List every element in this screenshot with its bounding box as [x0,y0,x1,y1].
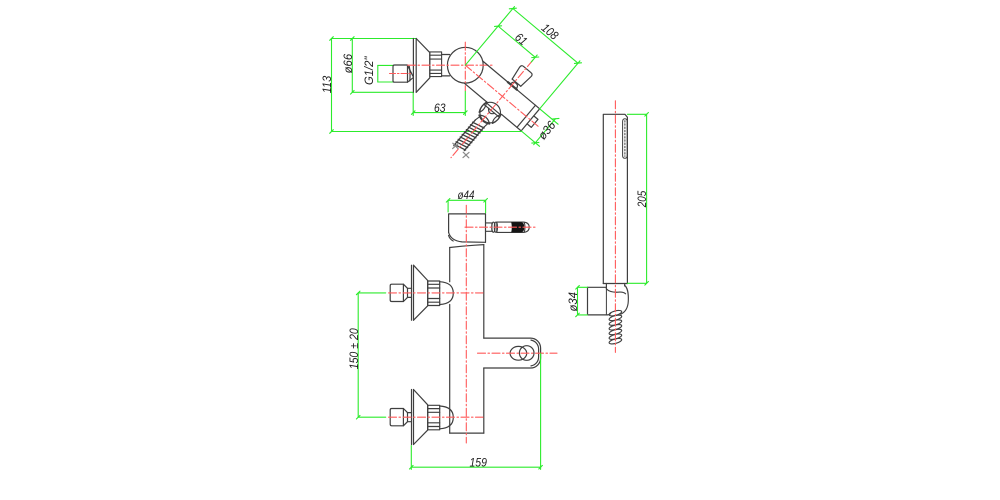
svg-text:ø34: ø34 [566,292,580,312]
handle (front view) [486,222,530,232]
svg-text:ø44: ø44 [458,188,475,202]
outlet nipple on cap [527,116,538,128]
neck cylinder to ball [442,55,450,76]
knurled nut (tilted view) [430,52,442,77]
hose hex ball nut [475,98,505,128]
lever slot arc [511,81,519,89]
top wall union (front view) [390,265,453,320]
red centerline vertical (ball axis) [464,42,466,90]
body (front view) [450,245,484,434]
stub [390,284,403,301]
hand shower red centerline [614,101,616,353]
dimension ø34 [576,286,588,317]
bottom wall union (front view) [390,390,453,445]
handle black grip [511,222,524,232]
spray face window [623,119,628,159]
dimension ø36 extensions [520,105,562,148]
handle red centerline [465,226,537,228]
handle rod outline [497,222,529,232]
cap inner line [517,105,536,127]
svg-text:205: 205 [635,191,649,208]
svg-text:113: 113 [320,76,334,94]
dimension 150±20 [356,291,385,419]
red centerline hose axis [451,60,533,157]
hose neck taper [475,116,488,128]
svg-text:61: 61 [512,30,530,48]
joint rings [492,222,495,232]
dimension 108 line [509,5,581,67]
dimension ø44 [446,199,487,213]
dimension ø66 line [351,37,414,94]
dimension 205 [627,113,648,286]
dimension 113 line [330,37,522,134]
top cap (front view) [449,214,486,242]
wall plate (tilted view) [413,39,416,93]
green extension ball center [465,7,514,66]
ball joint [447,47,483,83]
red centerline stub axis [390,73,413,75]
handle knob [511,65,533,88]
outlet nipple circles [510,346,534,361]
handle stub [486,223,492,231]
svg-text:G1/2": G1/2" [362,56,376,85]
flange cone (tilted view) [416,39,430,93]
holder block [588,287,608,315]
red centerline horizontal (flange axis) [408,64,495,66]
G1/2 leader box [378,65,393,82]
dimension 159 [410,354,543,470]
wall plate [411,265,413,320]
holder elbow [606,286,628,315]
dimension 63 line [411,91,467,116]
cone [414,265,428,320]
top union red centerline [389,292,484,294]
hand shower handle [603,114,627,283]
wall stub G1/2 (tilted view) [393,65,413,82]
dimension 61 line [495,23,539,61]
tip divider arc [523,222,526,232]
body cylinder edges [464,61,544,134]
flexible hose with ribs [453,120,484,154]
holder neck [606,284,624,289]
green extension knob tick [531,55,537,62]
taper [403,284,407,301]
svg-text:159: 159 [469,455,487,469]
rotated body group (40 deg) [412,0,607,198]
bottom union red centerline [389,416,484,418]
svg-text:63: 63 [434,101,446,115]
outlet tab (front view) [484,338,541,368]
nut [428,281,440,306]
green extension cap face [540,61,580,109]
coil hose [609,309,623,345]
red centerline body axis [465,65,539,127]
end cap face [521,109,540,131]
front view vertical red centerline [465,205,467,443]
outlet red centerline [478,352,558,354]
svg-text:ø66: ø66 [341,54,355,74]
eccentric taper [408,65,414,76]
dome collar [440,282,454,305]
svg-text:108: 108 [539,21,562,43]
svg-text:150 ± 20: 150 ± 20 [347,328,361,369]
hose break marks [453,143,469,158]
lever shadow on body edge [508,82,517,90]
